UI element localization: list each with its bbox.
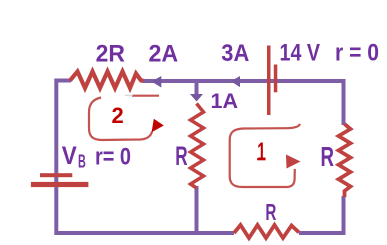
- svg-text:14 V: 14 V: [280, 40, 321, 67]
- loop 2 arrowhead: [152, 119, 164, 133]
- resistor R right: [339, 124, 351, 197]
- resistor 2R: [70, 72, 144, 89]
- svg-text:R: R: [265, 199, 276, 225]
- svg-text:r= 0: r= 0: [95, 143, 131, 170]
- loop 2 top segment: [132, 95, 159, 97]
- svg-text:2R: 2R: [96, 41, 125, 68]
- battery VB long plate: [31, 182, 89, 187]
- svg-text:2A: 2A: [149, 41, 179, 68]
- resistor R bottom: [234, 225, 299, 238]
- wire middle lower segment: [195, 186, 199, 233]
- wire middle stub from top rail: [195, 81, 199, 95]
- current arrow 2A head: [152, 76, 162, 88]
- svg-text:2: 2: [112, 103, 124, 128]
- loop 2 arc: [89, 98, 152, 141]
- loop 2 faint segment: [125, 94, 133, 96]
- battery 14V short plate: [274, 65, 278, 93]
- svg-text:1: 1: [257, 138, 265, 166]
- loop 1 arrowhead: [286, 155, 301, 169]
- svg-text:3A: 3A: [221, 40, 249, 67]
- wire left and bottom rail: [56, 81, 234, 234]
- svg-text:r = 0: r = 0: [335, 40, 379, 67]
- svg-text:R: R: [175, 141, 187, 171]
- current arrow 1A head: [190, 94, 203, 102]
- svg-text:B: B: [78, 152, 86, 172]
- svg-text:V: V: [62, 142, 77, 170]
- loop 1 arc: [230, 124, 300, 187]
- wire top rail from 2R to top-right corner and down to right resistor: [143, 81, 344, 125]
- wire right rail below resistor and bottom-right corner: [299, 196, 344, 233]
- svg-text:R: R: [321, 141, 335, 172]
- battery 14V long plate: [267, 46, 271, 116]
- svg-text:1A: 1A: [211, 90, 239, 113]
- resistor R middle: [191, 104, 204, 189]
- battery VB short plate: [40, 173, 72, 177]
- current arrow 3A head: [231, 76, 240, 87]
